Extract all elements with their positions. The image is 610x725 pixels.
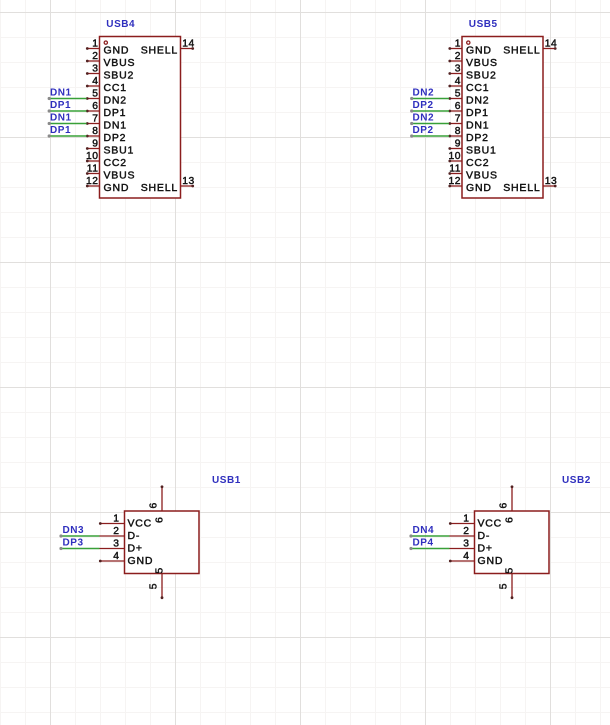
svg-text:CC2: CC2 (104, 157, 127, 169)
USB4 pin 9 (SBU1) (86, 139, 134, 157)
svg-text:3: 3 (463, 539, 469, 550)
svg-text:SBU2: SBU2 (104, 70, 135, 82)
USB2 pin 4 (GND) (449, 551, 503, 567)
svg-text:4: 4 (113, 551, 119, 562)
USB1 pin 6 (shield, top) (149, 485, 166, 523)
USB5 pin-1 indicator circle (467, 41, 470, 44)
svg-text:10: 10 (449, 151, 461, 162)
USB4 pin 13 (SHELL) (141, 176, 195, 194)
svg-text:5: 5 (154, 567, 166, 574)
wire net DN1 to USB4 pin 5 (48, 97, 87, 100)
wire net DP4 to USB2 pin 3 (409, 547, 449, 550)
svg-text:8: 8 (92, 126, 98, 137)
USB4 pin 3 (SBU2) (86, 64, 134, 82)
USB4 pin 11 (VBUS) (86, 164, 135, 182)
svg-text:SBU1: SBU1 (104, 145, 135, 157)
USB4 pin-1 indicator circle (104, 41, 107, 44)
svg-text:VCC: VCC (128, 518, 153, 530)
svg-text:USB2: USB2 (562, 475, 591, 486)
svg-text:DP3: DP3 (63, 538, 84, 549)
USB4 pin 8 (DP2) (86, 126, 126, 144)
svg-text:DN1: DN1 (104, 120, 127, 132)
USB1 body (125, 511, 200, 574)
svg-text:DP1: DP1 (104, 107, 127, 119)
svg-text:6: 6 (499, 502, 510, 508)
svg-text:DP2: DP2 (466, 132, 489, 144)
svg-text:SHELL: SHELL (503, 182, 540, 194)
svg-text:GND: GND (466, 182, 492, 194)
svg-text:11: 11 (87, 164, 99, 175)
svg-text:9: 9 (92, 139, 98, 150)
USB5 pin 2 (VBUS) (448, 51, 497, 69)
USB4 pin 12 (GND) (86, 176, 129, 194)
svg-text:4: 4 (463, 551, 469, 562)
svg-text:13: 13 (545, 176, 557, 187)
svg-text:DN2: DN2 (413, 88, 435, 99)
svg-text:5: 5 (504, 567, 516, 574)
svg-text:2: 2 (113, 526, 119, 537)
USB1 pin 1 (VCC) (99, 514, 152, 530)
USB1 pin 4 (GND) (99, 551, 153, 567)
USB2 pin 3 (D+) (450, 539, 493, 555)
svg-text:5: 5 (499, 583, 510, 589)
svg-text:DN3: DN3 (63, 525, 85, 536)
wire net DN2 to USB5 pin 5 (410, 97, 449, 100)
USB5 pin 10 (CC2) (448, 151, 489, 169)
USB1 pin 3 (D+) (100, 539, 143, 555)
svg-text:GND: GND (104, 182, 130, 194)
svg-text:2: 2 (455, 51, 461, 62)
wire net DN3 to USB1 pin 2 (59, 534, 99, 537)
svg-text:VBUS: VBUS (104, 57, 136, 69)
svg-text:DN2: DN2 (466, 95, 489, 107)
svg-text:DP2: DP2 (413, 125, 434, 136)
USB5 pin 1 (GND) (448, 39, 491, 57)
svg-text:DP2: DP2 (104, 132, 127, 144)
USB2 pin 1 (VCC) (449, 514, 502, 530)
svg-text:6: 6 (154, 516, 166, 523)
svg-text:1: 1 (455, 39, 461, 50)
svg-text:DN2: DN2 (104, 95, 127, 107)
wire net DP3 to USB1 pin 3 (59, 547, 99, 550)
USB5 pin 13 (SHELL) (503, 176, 557, 194)
svg-text:VBUS: VBUS (466, 57, 498, 69)
USB4 body (100, 37, 181, 199)
USB5 pin 11 (VBUS) (448, 164, 497, 182)
USB4 pin 6 (DP1) (86, 101, 126, 119)
svg-text:11: 11 (449, 164, 461, 175)
svg-text:D+: D+ (128, 543, 143, 555)
svg-text:6: 6 (92, 101, 98, 112)
svg-text:4: 4 (92, 76, 98, 87)
wire net DP1 to USB4 pin 8 (48, 134, 87, 137)
USB4 pin 2 (VBUS) (86, 51, 135, 69)
svg-text:14: 14 (182, 39, 194, 50)
wire net DN4 to USB2 pin 2 (409, 534, 449, 537)
USB2 pin 2 (D-) (450, 526, 491, 542)
USB5 pin 6 (DP1) (448, 101, 488, 119)
svg-text:DP4: DP4 (413, 538, 434, 549)
svg-text:DN1: DN1 (50, 88, 72, 99)
svg-text:CC1: CC1 (466, 82, 489, 94)
svg-text:9: 9 (455, 139, 461, 150)
svg-text:D+: D+ (478, 543, 493, 555)
wire net DN2 to USB5 pin 7 (410, 122, 449, 125)
svg-text:13: 13 (182, 176, 194, 187)
svg-text:7: 7 (455, 114, 461, 125)
wire net DN1 to USB4 pin 7 (48, 122, 87, 125)
USB5 pin 4 (CC1) (448, 76, 489, 94)
svg-text:8: 8 (455, 126, 461, 137)
svg-text:3: 3 (455, 64, 461, 75)
USB4 pin 14 (SHELL) (141, 39, 195, 57)
USB2 body (475, 511, 550, 574)
svg-text:SHELL: SHELL (141, 45, 178, 57)
svg-text:GND: GND (466, 45, 492, 57)
USB4 pin 1 (GND) (86, 39, 129, 57)
svg-text:5: 5 (455, 89, 461, 100)
USB4 pin 4 (CC1) (86, 76, 127, 94)
svg-text:7: 7 (92, 114, 98, 125)
svg-text:USB4: USB4 (106, 19, 135, 30)
USB2 pin 5 (shield, bottom) (499, 567, 516, 599)
svg-text:VBUS: VBUS (466, 170, 498, 182)
svg-text:10: 10 (86, 151, 98, 162)
USB4 pin 7 (DN1) (86, 114, 127, 132)
svg-text:DN2: DN2 (413, 113, 435, 124)
wire net DP2 to USB5 pin 6 (410, 109, 449, 112)
svg-text:5: 5 (92, 89, 98, 100)
svg-text:12: 12 (449, 176, 461, 187)
USB5 pin 8 (DP2) (448, 126, 488, 144)
svg-text:GND: GND (478, 555, 504, 567)
wire net DP1 to USB4 pin 6 (48, 109, 87, 112)
svg-text:D-: D- (128, 530, 141, 542)
USB5 pin 5 (DN2) (448, 89, 489, 107)
USB5 pin 3 (SBU2) (448, 64, 496, 82)
USB5 pin 14 (SHELL) (503, 39, 557, 57)
svg-text:1: 1 (92, 39, 98, 50)
svg-text:DP1: DP1 (50, 100, 71, 111)
svg-text:2: 2 (463, 526, 469, 537)
svg-text:4: 4 (455, 76, 461, 87)
USB5 pin 9 (SBU1) (448, 139, 496, 157)
svg-text:6: 6 (504, 516, 516, 523)
USB2 pin 6 (shield, top) (499, 485, 516, 523)
svg-text:3: 3 (113, 539, 119, 550)
svg-text:SHELL: SHELL (141, 182, 178, 194)
svg-text:12: 12 (86, 176, 98, 187)
svg-text:CC1: CC1 (104, 82, 127, 94)
svg-text:GND: GND (104, 45, 130, 57)
svg-text:1: 1 (113, 514, 119, 525)
svg-text:6: 6 (149, 502, 160, 508)
svg-text:DP2: DP2 (413, 100, 434, 111)
svg-text:3: 3 (92, 64, 98, 75)
USB1 pin 5 (shield, bottom) (149, 567, 166, 599)
svg-text:DP1: DP1 (50, 125, 71, 136)
svg-text:14: 14 (545, 39, 557, 50)
svg-text:CC2: CC2 (466, 157, 489, 169)
svg-text:DN1: DN1 (466, 120, 489, 132)
svg-text:DN4: DN4 (413, 525, 435, 536)
svg-text:5: 5 (149, 583, 160, 589)
svg-text:D-: D- (478, 530, 491, 542)
svg-text:DN1: DN1 (50, 113, 72, 124)
svg-text:VCC: VCC (478, 518, 503, 530)
svg-text:SBU1: SBU1 (466, 145, 497, 157)
svg-text:6: 6 (455, 101, 461, 112)
svg-text:1: 1 (463, 514, 469, 525)
USB1 pin 2 (D-) (100, 526, 141, 542)
svg-text:USB1: USB1 (212, 475, 241, 486)
svg-text:VBUS: VBUS (104, 170, 136, 182)
USB4 pin 10 (CC2) (86, 151, 127, 169)
svg-text:DP1: DP1 (466, 107, 489, 119)
USB5 body (462, 37, 543, 199)
svg-text:SHELL: SHELL (503, 45, 540, 57)
svg-text:GND: GND (128, 555, 154, 567)
svg-text:USB5: USB5 (469, 19, 498, 30)
USB5 pin 12 (GND) (448, 176, 491, 194)
USB4 pin 5 (DN2) (86, 89, 127, 107)
svg-text:2: 2 (92, 51, 98, 62)
USB5 pin 7 (DN1) (448, 114, 489, 132)
svg-text:SBU2: SBU2 (466, 70, 497, 82)
wire net DP2 to USB5 pin 8 (410, 134, 449, 137)
